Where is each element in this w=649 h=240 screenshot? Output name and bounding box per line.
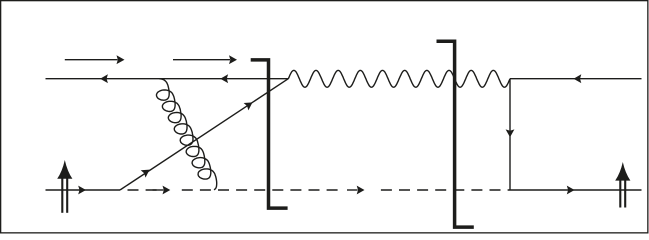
arrow 1 on dashed line: [153, 189, 164, 191]
struck quark line (diagonal): [120, 79, 288, 190]
leftward arrowhead on top right line: [574, 74, 582, 83]
spin double-arrow left: [57, 160, 72, 179]
downward arrowhead on vertical line: [506, 129, 515, 137]
momentum arrow 1 (above top line): [65, 59, 118, 61]
gluon coil from top line to bottom line: [157, 79, 217, 190]
arrowhead on antiquark line at x=220 (pointing left): [220, 74, 228, 83]
momentum arrow 2 (above top line): [173, 59, 230, 61]
bottom right line (solid): [510, 189, 642, 191]
arrowhead on bottom left line: [78, 186, 86, 195]
Wilson line bracket 1: [251, 60, 288, 208]
arrow 2 on dashed line: [347, 189, 358, 191]
arrowhead on diagonal quark line (upper): [244, 102, 253, 110]
arrowhead on diagonal quark line (lower): [141, 170, 150, 178]
photon wavy line: [288, 70, 510, 87]
top right antiquark line: [510, 78, 642, 80]
outgoing quark vertical line: [509, 79, 511, 190]
spin double-arrow right: [615, 162, 630, 181]
rightward arrowhead on bottom right line: [567, 186, 575, 195]
Wilson line bracket 2: [437, 41, 474, 227]
target remnant line (bottom left, solid): [46, 189, 121, 191]
dashed eikonal line: [128, 189, 511, 191]
arrowhead on antiquark line at x=100 (pointing left): [100, 74, 108, 83]
antiquark line (top left, incoming): [46, 78, 289, 80]
